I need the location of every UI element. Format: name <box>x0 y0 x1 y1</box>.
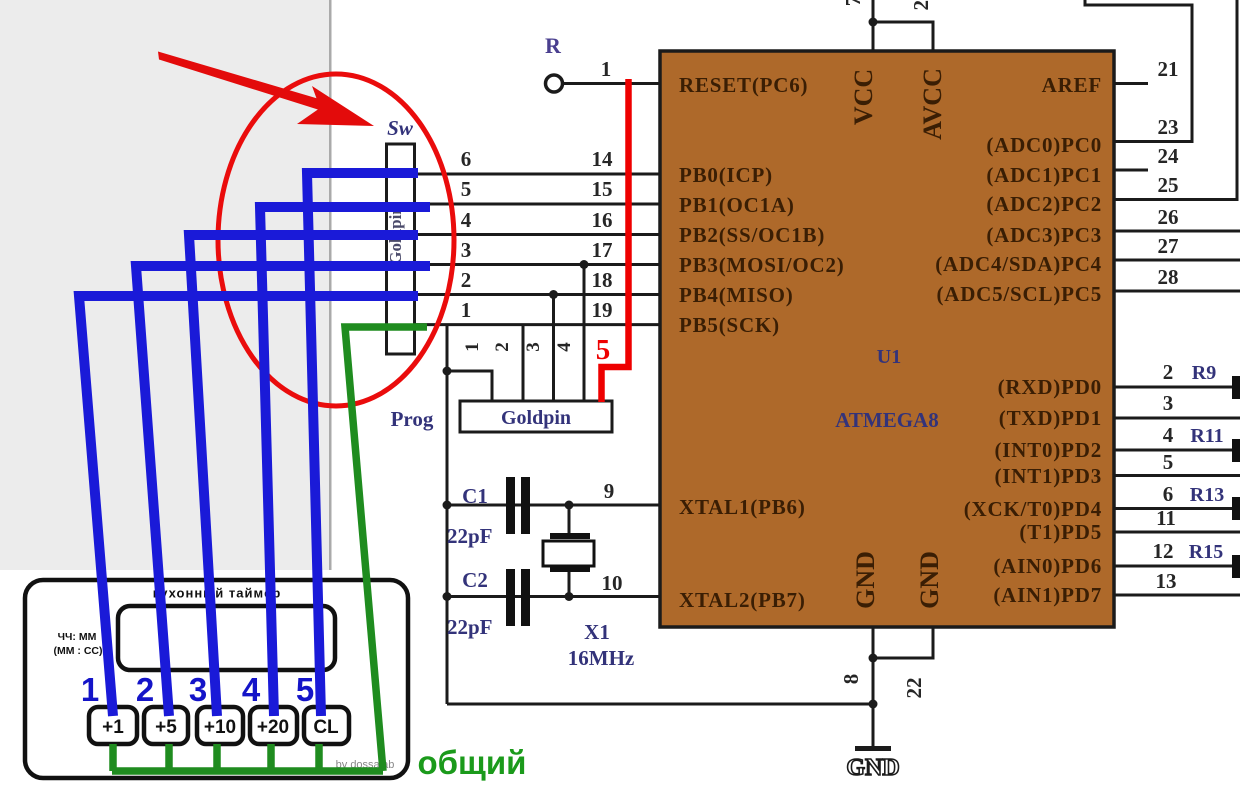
svg-text:X1: X1 <box>584 620 610 644</box>
svg-text:+1: +1 <box>102 717 124 738</box>
node dot c2 <box>443 592 452 601</box>
svg-text:GND: GND <box>915 551 944 609</box>
svg-text:R13: R13 <box>1190 484 1224 506</box>
svg-text:+5: +5 <box>155 717 177 738</box>
wire row PB0 <box>414 173 660 176</box>
svg-text:27: 27 <box>1158 234 1179 258</box>
divider line <box>329 0 332 570</box>
svg-text:1: 1 <box>461 298 472 322</box>
svg-text:4: 4 <box>461 208 472 232</box>
svg-text:(ADC2)PC2: (ADC2)PC2 <box>986 192 1102 216</box>
svg-text:1: 1 <box>81 671 99 708</box>
blue wire 3 plus10 <box>189 235 418 716</box>
button +5 <box>144 707 188 744</box>
svg-text:PB0(ICP): PB0(ICP) <box>679 163 773 187</box>
resistor R15 body <box>1232 555 1240 578</box>
svg-text:1: 1 <box>462 342 483 352</box>
svg-text:2: 2 <box>136 671 154 708</box>
crystal X1 <box>543 505 594 597</box>
wire PD4 <box>1114 507 1233 510</box>
red arrow <box>158 52 374 127</box>
svg-text:C2: C2 <box>462 568 488 592</box>
svg-text:4: 4 <box>1163 423 1174 447</box>
svg-text:3: 3 <box>1163 391 1174 415</box>
svg-text:20: 20 <box>909 0 933 11</box>
resistor R13 body <box>1232 497 1240 520</box>
green stub b5 <box>315 744 323 771</box>
button CL <box>304 707 349 744</box>
svg-text:5: 5 <box>1163 450 1174 474</box>
blue wire 1 plus1 <box>79 296 418 716</box>
svg-text:22: 22 <box>902 678 926 699</box>
svg-text:R15: R15 <box>1189 541 1223 563</box>
svg-text:5: 5 <box>596 334 611 366</box>
GND pin22 branch <box>873 627 933 658</box>
ground return wire <box>447 703 873 706</box>
svg-text:GND: GND <box>851 551 880 609</box>
svg-text:(ADC3)PC3: (ADC3)PC3 <box>986 223 1102 247</box>
svg-text:(TXD)PD1: (TXD)PD1 <box>999 406 1102 430</box>
svg-text:AVCC: AVCC <box>918 68 947 140</box>
wire row PB1 <box>414 203 660 206</box>
svg-text:ЧЧ: ММ: ЧЧ: ММ <box>58 631 97 643</box>
svg-text:8: 8 <box>839 674 863 685</box>
svg-text:R9: R9 <box>1192 362 1216 384</box>
svg-text:U1: U1 <box>877 346 901 368</box>
svg-text:R11: R11 <box>1190 425 1223 447</box>
blue wire 5 CL <box>307 173 418 716</box>
svg-text:(ММ : СС): (ММ : СС) <box>54 645 103 657</box>
wire row PB2 <box>414 233 660 236</box>
wire PC4 <box>1114 259 1240 262</box>
wire goldpin pin2 <box>522 325 525 401</box>
svg-text:кухонный таймер: кухонный таймер <box>153 586 282 601</box>
Goldpin prog connector body <box>460 401 612 432</box>
svg-text:17: 17 <box>592 238 613 262</box>
ground bar <box>855 746 891 751</box>
svg-text:5: 5 <box>461 177 472 201</box>
svg-text:23: 23 <box>1158 115 1179 139</box>
svg-text:21: 21 <box>1158 57 1179 81</box>
svg-text:4: 4 <box>242 671 261 708</box>
timer device outline <box>25 580 408 778</box>
capacitor C1 <box>506 477 530 534</box>
button +10 <box>197 707 243 744</box>
wire goldpin pin1 <box>447 371 492 401</box>
svg-text:+10: +10 <box>204 717 236 738</box>
green stub b1 <box>109 744 117 771</box>
svg-text:(ADC5/SCL)PC5: (ADC5/SCL)PC5 <box>936 282 1102 306</box>
gray page strip <box>0 0 330 570</box>
svg-text:15: 15 <box>592 177 613 201</box>
svg-text:11: 11 <box>1156 506 1176 530</box>
green common wire <box>345 327 427 771</box>
wire PC3 <box>1114 230 1240 233</box>
svg-text:14: 14 <box>592 147 614 171</box>
svg-text:(ADC1)PC1: (ADC1)PC1 <box>986 163 1102 187</box>
svg-text:6: 6 <box>1163 482 1174 506</box>
button +1 <box>89 707 137 744</box>
red ellipse highlight <box>218 74 454 406</box>
svg-text:VCC: VCC <box>849 69 878 125</box>
wire PD6 <box>1114 565 1233 568</box>
wire AREF stub <box>1114 82 1148 85</box>
svg-text:AREF: AREF <box>1042 73 1102 97</box>
svg-text:RESET(PC6): RESET(PC6) <box>679 73 808 97</box>
svg-text:25: 25 <box>1158 173 1179 197</box>
wire XTAL1 row <box>447 504 660 507</box>
svg-text:5: 5 <box>296 671 314 708</box>
svg-text:12: 12 <box>1153 539 1174 563</box>
green stub b2 <box>165 744 173 771</box>
svg-text:+20: +20 <box>257 717 289 738</box>
wire goldpin pin4 <box>583 265 586 402</box>
wire PC2 net <box>1114 0 1237 200</box>
svg-text:2: 2 <box>461 268 472 292</box>
node dot gp4 <box>580 260 589 269</box>
svg-text:XTAL2(PB7): XTAL2(PB7) <box>679 588 806 612</box>
wire XTAL2 row <box>447 595 660 598</box>
svg-text:PB4(MISO): PB4(MISO) <box>679 283 794 307</box>
node dot x1a <box>565 501 574 510</box>
svg-text:22pF: 22pF <box>447 524 493 548</box>
svg-text:(INT1)PD3: (INT1)PD3 <box>994 464 1102 488</box>
svg-text:7: 7 <box>841 0 865 6</box>
svg-text:2: 2 <box>1163 360 1174 384</box>
node dot gnd2 <box>869 700 878 709</box>
svg-text:(XCK/T0)PD4: (XCK/T0)PD4 <box>964 497 1102 521</box>
capacitor C2 <box>506 569 530 626</box>
svg-text:28: 28 <box>1158 265 1179 289</box>
svg-text:PB1(OC1A): PB1(OC1A) <box>679 193 795 217</box>
connector Sw body <box>387 144 415 354</box>
svg-text:XTAL1(PB6): XTAL1(PB6) <box>679 495 806 519</box>
svg-text:16MHz: 16MHz <box>568 646 634 670</box>
svg-text:1: 1 <box>601 57 612 81</box>
VCC net above chip <box>872 0 875 51</box>
svg-text:(INT0)PD2: (INT0)PD2 <box>994 438 1102 462</box>
svg-text:ATMEGA8: ATMEGA8 <box>835 408 938 432</box>
svg-text:(RXD)PD0: (RXD)PD0 <box>998 375 1102 399</box>
svg-text:(AIN0)PD6: (AIN0)PD6 <box>993 554 1102 578</box>
wire row PB5 <box>414 323 660 326</box>
wire PD2 <box>1114 449 1233 452</box>
wire PD7 <box>1114 594 1240 597</box>
node dot c1 <box>443 501 452 510</box>
svg-text:24: 24 <box>1158 144 1180 168</box>
svg-text:(T1)PD5: (T1)PD5 <box>1019 520 1102 544</box>
svg-text:Prog: Prog <box>391 407 434 431</box>
svg-text:(AIN1)PD7: (AIN1)PD7 <box>993 583 1102 607</box>
svg-text:3: 3 <box>189 671 207 708</box>
svg-text:(ADC0)PC0: (ADC0)PC0 <box>986 133 1102 157</box>
svg-text:(ADC4/SDA)PC4: (ADC4/SDA)PC4 <box>935 252 1102 276</box>
svg-text:C1: C1 <box>462 484 488 508</box>
svg-text:Goldpin: Goldpin <box>501 407 571 429</box>
blue wire 4 plus20 <box>260 207 430 716</box>
node dot gnd1 <box>869 654 878 663</box>
red wire reset to goldpin pin5 <box>602 79 629 402</box>
timer display <box>118 606 335 670</box>
wire PD1 <box>1114 417 1240 420</box>
wire PC1 stub <box>1114 169 1148 172</box>
svg-text:10: 10 <box>602 571 623 595</box>
svg-text:PB3(MOSI/OC2): PB3(MOSI/OC2) <box>679 253 845 277</box>
terminal R circle <box>546 75 563 92</box>
wire PC0 net <box>1085 0 1192 142</box>
node dot gp3 <box>549 290 558 299</box>
svg-text:13: 13 <box>1156 569 1177 593</box>
wire PD5 <box>1114 531 1240 534</box>
svg-text:3: 3 <box>461 238 472 262</box>
svg-text:CL: CL <box>313 717 339 738</box>
node dot VCC <box>869 18 878 27</box>
svg-text:9: 9 <box>604 479 615 503</box>
wire goldpin pin3 <box>552 295 555 402</box>
left vertical net wire <box>446 325 449 704</box>
svg-text:16: 16 <box>592 208 613 232</box>
wire PD3 <box>1114 474 1240 477</box>
svg-text:3: 3 <box>523 342 544 352</box>
resistor R11 body <box>1232 439 1240 462</box>
green stub b4 <box>267 744 275 771</box>
svg-text:18: 18 <box>592 268 613 292</box>
chip U1 body <box>660 51 1114 627</box>
AVCC branch wire <box>873 22 933 51</box>
wire row PB3 <box>414 263 660 266</box>
wire row PB4 <box>414 293 660 296</box>
blue wire 2 plus5 <box>136 266 430 716</box>
GND net below chip <box>872 627 875 748</box>
svg-text:PB5(SCK): PB5(SCK) <box>679 313 780 337</box>
svg-text:PB2(SS/OC1B): PB2(SS/OC1B) <box>679 223 825 247</box>
resistor R9 body <box>1232 376 1240 399</box>
button +20 <box>250 707 297 744</box>
svg-text:4: 4 <box>554 342 575 352</box>
svg-text:Sw: Sw <box>387 116 414 140</box>
wire RESET row <box>562 82 660 85</box>
svg-text:22pF: 22pF <box>447 615 493 639</box>
green bus <box>112 767 383 775</box>
svg-text:19: 19 <box>592 298 613 322</box>
svg-text:2: 2 <box>492 342 513 352</box>
svg-text:GND: GND <box>846 755 899 781</box>
svg-text:R: R <box>545 33 562 58</box>
wire PC5 <box>1114 290 1240 293</box>
node dot x1b <box>565 592 574 601</box>
node dot prog1 <box>443 367 452 376</box>
wire PD0 <box>1114 386 1233 389</box>
svg-text:6: 6 <box>461 147 472 171</box>
svg-text:26: 26 <box>1158 205 1179 229</box>
green stub b3 <box>213 744 221 771</box>
svg-text:общий: общий <box>418 744 527 781</box>
